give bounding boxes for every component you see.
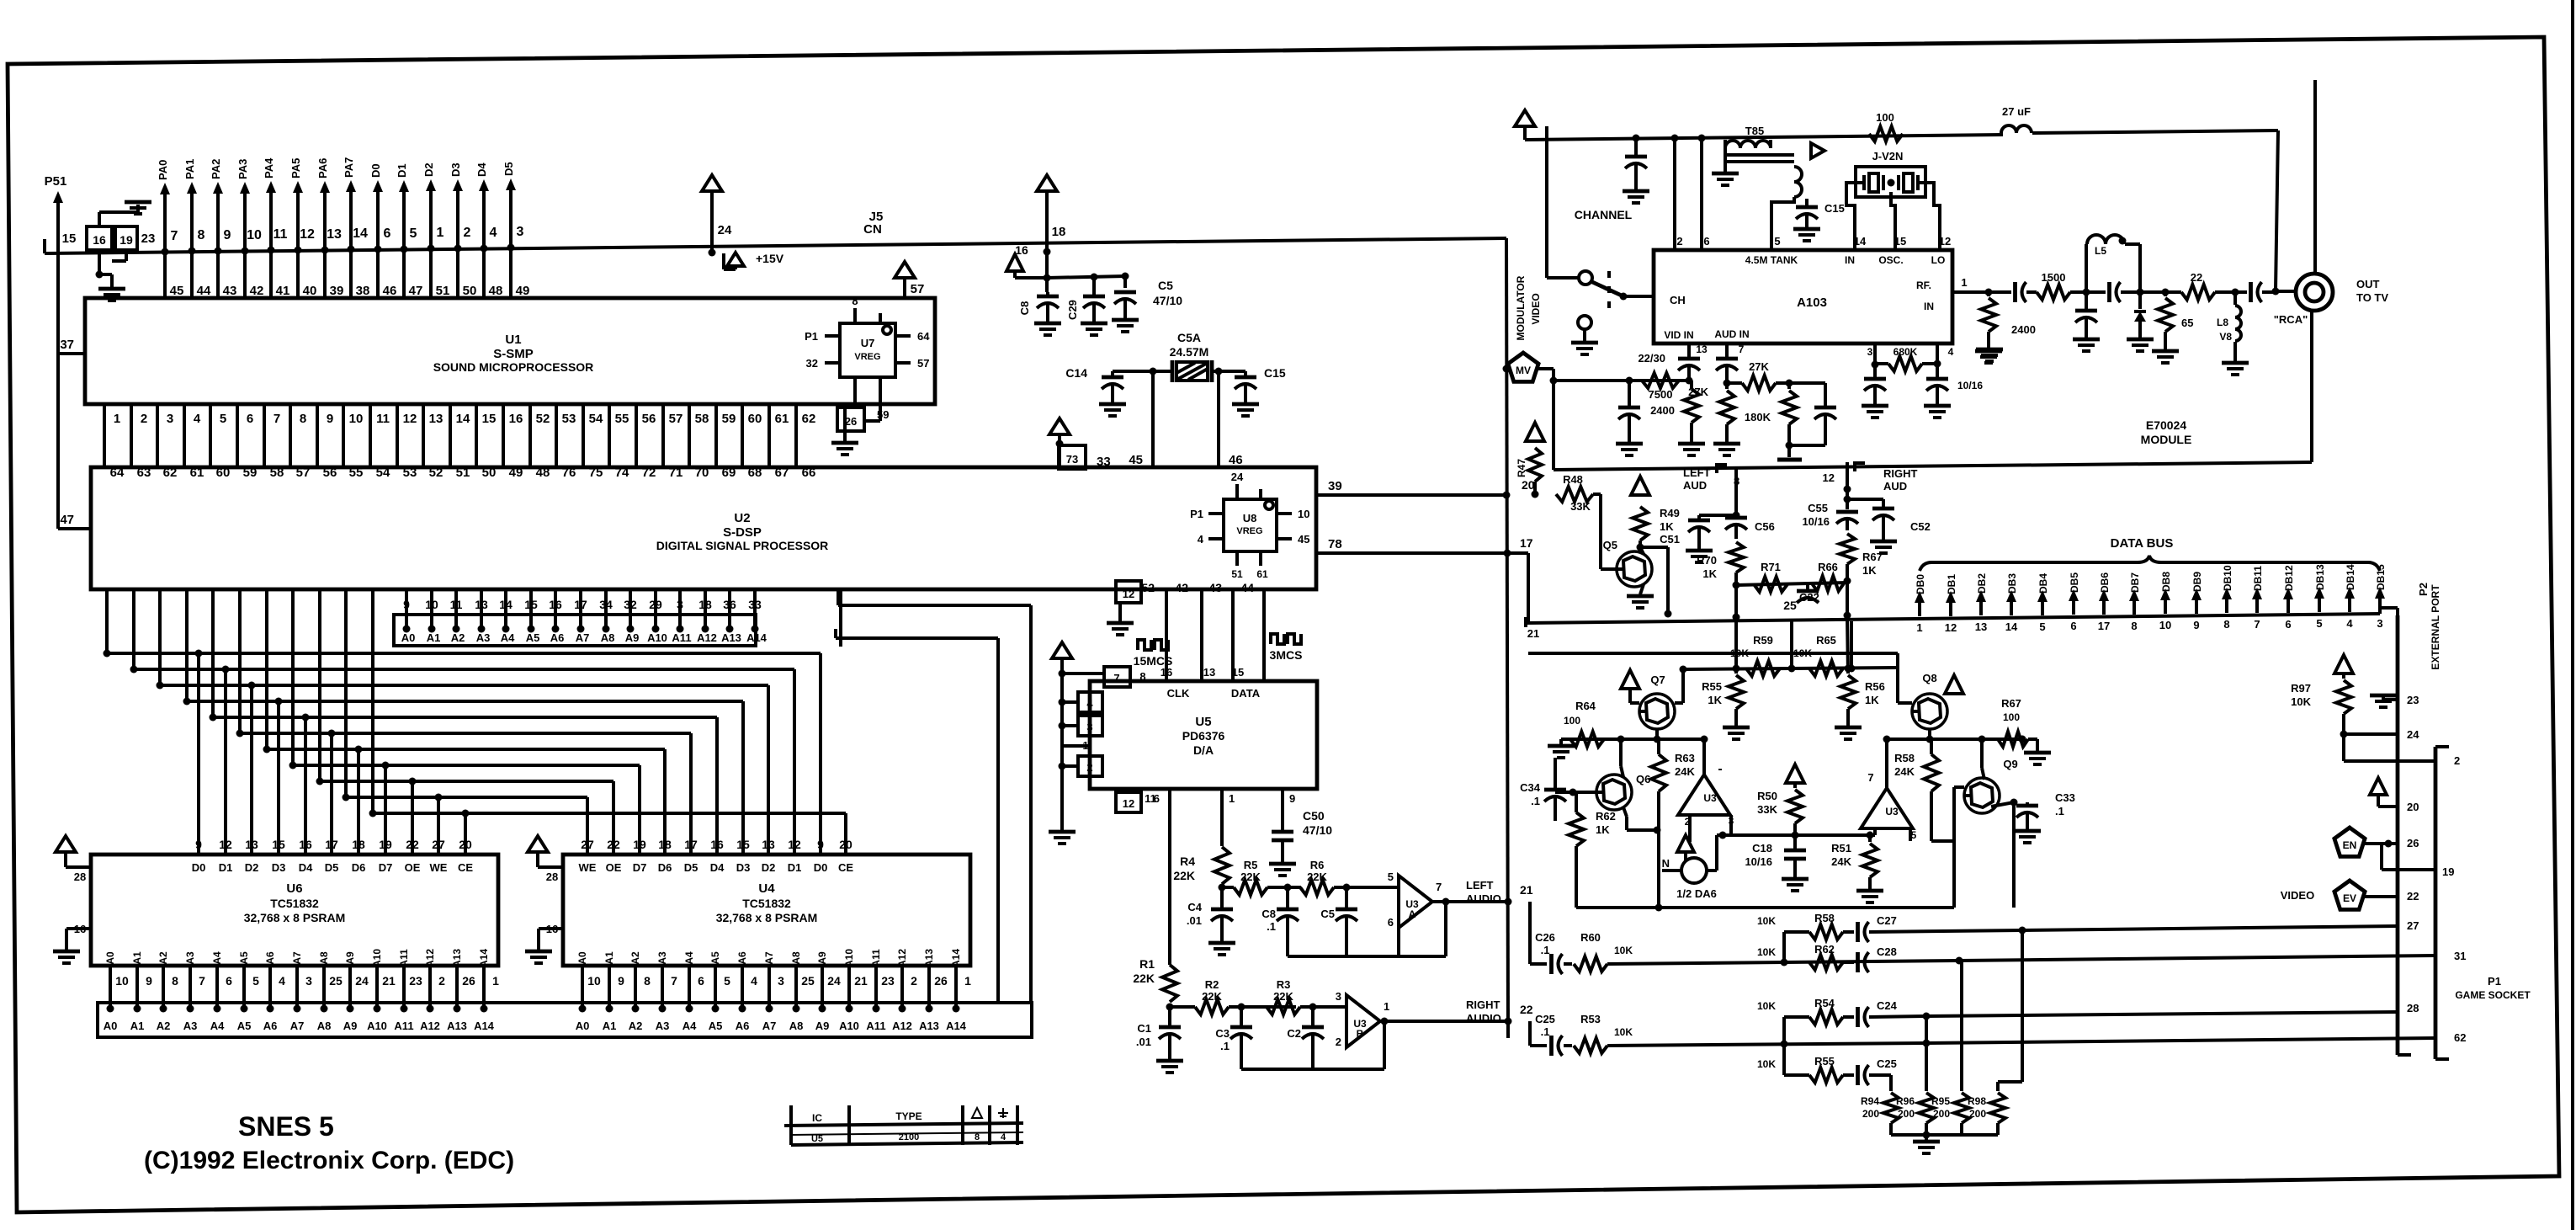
- svg-text:D6: D6: [352, 861, 366, 874]
- svg-text:33: 33: [1097, 455, 1111, 469]
- svg-text:10: 10: [115, 974, 129, 988]
- svg-text:5: 5: [410, 226, 417, 241]
- data bus bit DB8: [2159, 572, 2172, 631]
- wire bus pin 11 arrow / net PA4: [263, 157, 288, 254]
- svg-text:47/10: 47/10: [1303, 823, 1332, 837]
- svg-text:D5: D5: [502, 162, 515, 176]
- svg-text:A9: A9: [815, 1020, 830, 1032]
- P1 pin 62: [2454, 1031, 2466, 1044]
- svg-text:18: 18: [698, 598, 712, 611]
- U4 bottom pin 25 net A8: [790, 951, 815, 1012]
- svg-text:CE: CE: [838, 861, 853, 874]
- svg-text:27 uF: 27 uF: [2002, 105, 2031, 118]
- svg-text:4.5M TANK: 4.5M TANK: [1745, 254, 1798, 266]
- svg-text:A: A: [1409, 908, 1416, 920]
- wire bus pin 6 arrow / net D0: [369, 163, 391, 253]
- U6 bottom pin 6 net A4: [211, 951, 232, 1012]
- svg-text:TC51832: TC51832: [270, 897, 319, 910]
- net J5 CN label: [863, 210, 883, 237]
- svg-text:15: 15: [482, 412, 497, 426]
- capacitor C5b: [1320, 887, 1357, 956]
- wire U1 pin 41: [271, 250, 289, 298]
- wire U3c output: [1701, 736, 1708, 775]
- svg-text:62: 62: [2454, 1031, 2466, 1044]
- resistor R 2400b: [1650, 381, 1705, 455]
- wire bus pin 7 arrow / net PA0: [157, 160, 178, 256]
- svg-text:D4: D4: [475, 162, 488, 177]
- wire bus pin 14 arrow / net PA7: [343, 157, 368, 253]
- ground U6 pin 16: [53, 923, 91, 963]
- capacitor C5 47/10: [1112, 279, 1182, 332]
- svg-text:CN: CN: [863, 222, 882, 237]
- P2 pin 23 ground: [2370, 694, 2419, 707]
- svg-text:C29: C29: [1066, 300, 1079, 320]
- svg-text:D7: D7: [379, 861, 393, 874]
- svg-text:6: 6: [1867, 829, 1873, 841]
- resistor R 680K: [1872, 343, 1941, 371]
- svg-text:17: 17: [684, 838, 698, 851]
- svg-text:10: 10: [247, 228, 262, 242]
- svg-text:C27: C27: [1877, 914, 1897, 927]
- U6 bottom pin 10 net A0: [104, 951, 129, 1012]
- wire Q9 collector: [1982, 739, 1984, 780]
- svg-text:A9: A9: [344, 951, 356, 965]
- svg-text:12: 12: [1945, 621, 1957, 634]
- module E70024 label: [2141, 418, 2192, 446]
- svg-text:A8: A8: [789, 1020, 804, 1032]
- svg-text:1K: 1K: [1660, 520, 1674, 533]
- svg-text:C51: C51: [1660, 533, 1680, 546]
- svg-text:15: 15: [1232, 666, 1244, 679]
- svg-text:DATA BUS: DATA BUS: [2111, 536, 2174, 551]
- svg-text:R60: R60: [1580, 931, 1601, 944]
- capacitor C15x: [1232, 366, 1286, 416]
- wire 180K down: [1787, 445, 1791, 457]
- svg-text:19: 19: [120, 233, 133, 247]
- svg-text:-: -: [1718, 762, 1722, 776]
- wire 18 down: [1045, 253, 1049, 292]
- resistor R67 100: [1998, 697, 2051, 764]
- capacitor mod3: [1862, 365, 1888, 418]
- svg-text:10: 10: [587, 974, 601, 988]
- data bus bit DB13: [2314, 564, 2326, 630]
- node C3 junction: [1229, 1004, 1296, 1011]
- U5 labels: [1161, 666, 1261, 757]
- svg-text:31: 31: [2454, 950, 2466, 962]
- svg-text:A14: A14: [950, 949, 962, 967]
- capacitor C55 10/16: [1802, 502, 1858, 530]
- svg-text:1500: 1500: [2042, 271, 2066, 284]
- svg-text:3: 3: [1336, 990, 1341, 1003]
- svg-text:44: 44: [197, 284, 211, 298]
- svg-text:9: 9: [327, 412, 333, 426]
- data bus bit DB3: [2005, 573, 2018, 633]
- wire Wd to socket: [1926, 1038, 2435, 1043]
- power +V DA6: [1677, 835, 1694, 860]
- U4 bottom pin 5 net A5: [709, 951, 730, 1012]
- svg-text:DB5: DB5: [2069, 572, 2080, 593]
- svg-text:10: 10: [349, 412, 364, 426]
- svg-text:55: 55: [615, 412, 629, 426]
- svg-text:C5A: C5A: [1177, 331, 1201, 344]
- svg-text:6: 6: [226, 974, 232, 988]
- svg-text:1: 1: [964, 974, 971, 988]
- wire data net OE from U2 to RAMs: [316, 589, 614, 855]
- U4 bottom pin 7 net A3: [656, 951, 677, 1012]
- capacitor out1: [1989, 282, 2037, 302]
- svg-text:U2: U2: [734, 511, 750, 525]
- svg-text:A5: A5: [237, 1020, 252, 1032]
- svg-text:Q9: Q9: [2003, 758, 2017, 770]
- svg-text:AUDIO: AUDIO: [1466, 1012, 1501, 1025]
- wire mod pin2 riser: [1671, 135, 1679, 251]
- svg-text:54: 54: [589, 412, 603, 426]
- svg-text:A10: A10: [839, 1020, 859, 1032]
- svg-text:12: 12: [1939, 235, 1951, 248]
- resistor R62b 10K: [1757, 943, 1843, 970]
- svg-text:61: 61: [775, 412, 789, 426]
- wire U1 pin 50: [458, 248, 476, 298]
- svg-text:14: 14: [2005, 620, 2018, 633]
- IC U5 PD6376 box: [1090, 681, 1317, 789]
- wire U1.7 to U2.58: [264, 404, 284, 480]
- svg-text:A12: A12: [892, 1020, 912, 1032]
- svg-text:A13: A13: [923, 949, 935, 967]
- U6 bottom pin 5 net A5: [238, 951, 259, 1012]
- svg-text:20: 20: [2407, 801, 2419, 813]
- scan edge line: [2571, 0, 2574, 1230]
- ground R64 left: [1548, 739, 1575, 758]
- capacitor 180K parallel: [1789, 383, 1836, 445]
- svg-text:10K: 10K: [1757, 946, 1776, 958]
- U2 pin 52 wire: [1141, 581, 1166, 681]
- wire modulator video V1: [1503, 238, 1512, 1038]
- P2 pin 26: [2388, 837, 2419, 849]
- wire RN1 bottom: [96, 250, 127, 287]
- resistor R4 22K: [1173, 847, 1230, 892]
- P2 pin 20 power: [2370, 778, 2419, 813]
- capacitor mv: [1616, 381, 1643, 455]
- P2 pin 22: [2407, 890, 2419, 903]
- svg-text:2: 2: [141, 412, 147, 426]
- wire 7500 rail: [1554, 377, 1689, 385]
- svg-text:19: 19: [2442, 865, 2454, 878]
- capacitor C26 .1: [1535, 931, 1572, 974]
- svg-text:2: 2: [464, 226, 471, 240]
- resistor R53 10K: [1574, 1013, 1633, 1053]
- IC U6 TC51832 box: [91, 855, 498, 966]
- wire Q8 emitter: [1928, 729, 1931, 739]
- resistor R97 10K: [2291, 655, 2353, 738]
- wire U3a output: [1432, 898, 1508, 906]
- svg-text:49: 49: [516, 284, 530, 298]
- svg-text:A11: A11: [866, 1020, 885, 1032]
- svg-text:3MCS: 3MCS: [1270, 648, 1303, 662]
- U6 bottom pin 7 net A3: [184, 951, 205, 1012]
- svg-text:9: 9: [2193, 619, 2199, 631]
- capacitor C27: [1843, 914, 2026, 942]
- svg-text:A4: A4: [211, 951, 223, 965]
- power +V U4 pin 28: [528, 836, 563, 883]
- svg-text:22: 22: [1520, 1003, 1533, 1016]
- svg-text:R67: R67: [2001, 697, 2021, 710]
- IC A103 modulator box: [1654, 250, 1952, 343]
- svg-text:A3: A3: [184, 951, 196, 965]
- svg-text:42: 42: [250, 284, 264, 298]
- net 20 label: [1522, 478, 1535, 492]
- svg-text:C33: C33: [2055, 791, 2075, 804]
- net RIGHT AUD label: [1883, 467, 1918, 493]
- svg-text:10K: 10K: [1757, 1058, 1776, 1070]
- svg-text:15: 15: [272, 838, 285, 851]
- svg-text:OUT: OUT: [2356, 278, 2380, 290]
- legend table: [784, 1105, 1023, 1145]
- svg-text:A4: A4: [210, 1020, 225, 1032]
- svg-text:21: 21: [854, 974, 868, 988]
- U4 bottom pin 4 net A6: [736, 951, 757, 1012]
- data bus brace: [1920, 556, 2380, 571]
- wire U6 pin 27 drop: [432, 794, 445, 855]
- svg-text:LEFT: LEFT: [1466, 879, 1494, 892]
- resistor R55b 10K: [1757, 1044, 1843, 1083]
- svg-text:7: 7: [1739, 343, 1745, 355]
- svg-text:R51: R51: [1831, 842, 1851, 855]
- U2 address pin 33 net A14: [746, 589, 767, 644]
- node C5 junction: [1334, 884, 1399, 892]
- svg-text:57: 57: [911, 282, 925, 296]
- svg-text:22: 22: [607, 838, 620, 851]
- svg-text:PD6376: PD6376: [1182, 729, 1225, 743]
- svg-text:7: 7: [1436, 881, 1442, 893]
- svg-text:RIGHT: RIGHT: [1883, 467, 1918, 480]
- svg-text:EV: EV: [2343, 892, 2356, 904]
- U4 bottom pin 26 net A13: [923, 949, 948, 1013]
- wire address wrap A14: [838, 589, 1031, 1003]
- wire U1.6 to U2.59: [237, 404, 257, 480]
- svg-text:Q8: Q8: [1922, 672, 1936, 684]
- svg-text:58: 58: [695, 412, 709, 426]
- svg-text:9: 9: [195, 838, 202, 851]
- resistor R51 24K: [1831, 832, 1883, 903]
- svg-text:C25: C25: [1535, 1013, 1555, 1025]
- svg-text:A3: A3: [656, 951, 668, 965]
- wire U1.60 to U2.68: [742, 404, 762, 480]
- svg-text:R6: R6: [1310, 859, 1325, 871]
- svg-text:1K: 1K: [1862, 564, 1877, 577]
- svg-text:N: N: [1662, 857, 1670, 870]
- U5 pin 1b wire: [1222, 789, 1235, 846]
- svg-text:17: 17: [574, 598, 587, 611]
- U6 bottom pin 4 net A6: [264, 951, 285, 1012]
- wire rail 776: [1528, 653, 1898, 690]
- svg-text:D5: D5: [684, 861, 698, 874]
- svg-text:28: 28: [2407, 1002, 2419, 1014]
- resistor R54 10K: [1757, 997, 1843, 1025]
- wire 878 rail left: [1570, 736, 1704, 743]
- svg-text:D1: D1: [396, 163, 408, 178]
- svg-text:DB4: DB4: [2037, 573, 2049, 594]
- svg-text:3: 3: [2377, 617, 2382, 630]
- svg-text:A0: A0: [104, 951, 116, 965]
- U4 bottom pin 23 net A11: [870, 949, 895, 1012]
- svg-text:6: 6: [247, 412, 253, 426]
- svg-text:1: 1: [1384, 1000, 1389, 1013]
- svg-text:20: 20: [839, 838, 852, 851]
- resistor R 7500: [1642, 373, 1679, 401]
- svg-text:R55: R55: [1702, 680, 1722, 693]
- U5 pin 4 box: [1062, 692, 1102, 712]
- svg-text:TYPE: TYPE: [895, 1110, 922, 1122]
- svg-text:2: 2: [438, 974, 445, 988]
- wire U1 pin 44: [192, 251, 211, 298]
- svg-text:A0: A0: [104, 1020, 118, 1032]
- svg-text:16: 16: [549, 598, 562, 611]
- power +V U6 pin 28: [56, 836, 91, 883]
- svg-text:A14: A14: [474, 1020, 495, 1032]
- svg-text:C2: C2: [1287, 1027, 1301, 1040]
- svg-text:A7: A7: [291, 951, 303, 965]
- resistor R 180K: [1745, 383, 1797, 450]
- svg-text:A11: A11: [394, 1020, 413, 1032]
- svg-text:10K: 10K: [1793, 647, 1812, 659]
- svg-text:45: 45: [1129, 453, 1143, 467]
- resistor R 2400 out: [1975, 292, 2036, 363]
- svg-text:45: 45: [170, 284, 184, 298]
- svg-text:7: 7: [274, 412, 280, 426]
- svg-text:52: 52: [536, 412, 550, 426]
- svg-text:22: 22: [406, 838, 419, 851]
- svg-text:A0: A0: [576, 951, 588, 965]
- wire Q6 collector: [1621, 739, 1623, 777]
- svg-text:10K: 10K: [2291, 695, 2311, 708]
- U2 address pin 34 net A8: [599, 589, 614, 644]
- wire audio rail 557: [1554, 464, 2154, 470]
- svg-text:SOUND MICROPROCESSOR: SOUND MICROPROCESSOR: [433, 360, 594, 374]
- svg-text:TO TV: TO TV: [2356, 291, 2388, 304]
- svg-text:8: 8: [2131, 620, 2137, 632]
- U2 pin 44 wire: [1240, 581, 1264, 681]
- svg-text:16: 16: [1161, 666, 1172, 679]
- wire U3d output: [1883, 736, 1891, 789]
- svg-text:2: 2: [1086, 761, 1092, 774]
- svg-text:2400: 2400: [2011, 323, 2036, 336]
- wire U2 pin 47: [58, 513, 91, 529]
- svg-text:PA6: PA6: [316, 158, 329, 178]
- resistor R5 22K: [1234, 859, 1267, 895]
- svg-text:4: 4: [1086, 697, 1093, 710]
- wire U1.52 to U2.48: [530, 404, 550, 480]
- svg-text:26: 26: [2407, 837, 2419, 849]
- svg-text:A11: A11: [672, 631, 691, 644]
- svg-text:44: 44: [1240, 581, 1254, 594]
- capacitor C51: [1660, 512, 1739, 563]
- svg-text:3: 3: [778, 974, 784, 988]
- svg-text:A7: A7: [762, 1020, 777, 1032]
- svg-text:R97: R97: [2291, 682, 2311, 695]
- svg-text:10K: 10K: [1757, 915, 1776, 927]
- svg-text:.1: .1: [1220, 1040, 1230, 1052]
- svg-text:38: 38: [356, 284, 370, 298]
- svg-text:7: 7: [1113, 672, 1119, 684]
- svg-text:DB1: DB1: [1946, 574, 1957, 594]
- power +V U1 pin 57: [895, 262, 924, 298]
- svg-text:E70024: E70024: [2146, 418, 2186, 432]
- svg-text:1K: 1K: [1708, 694, 1722, 706]
- resistor R67b 1K: [1840, 534, 1883, 620]
- svg-text:12: 12: [1123, 797, 1134, 810]
- svg-text:LO: LO: [1931, 254, 1946, 266]
- resistor R 1500: [2037, 271, 2090, 300]
- svg-text:DB12: DB12: [2283, 565, 2295, 591]
- svg-text:3: 3: [167, 412, 173, 426]
- ground below RN1: [98, 289, 125, 301]
- svg-text:C34: C34: [1520, 781, 1541, 794]
- svg-text:AUDIO: AUDIO: [1466, 892, 1501, 905]
- svg-text:A3: A3: [656, 1020, 670, 1032]
- wire data net D0 from U2 to RAMs: [104, 589, 821, 855]
- svg-text:A5: A5: [709, 951, 721, 965]
- svg-text:LEFT: LEFT: [1683, 466, 1711, 479]
- wire bus pin 5 arrow / net D1: [396, 163, 417, 253]
- wire U1.14 to U2.51: [450, 404, 470, 480]
- svg-text:15: 15: [1894, 235, 1906, 248]
- module bottom line: [2154, 311, 2312, 464]
- svg-text:P1: P1: [805, 330, 818, 343]
- svg-text:DB13: DB13: [2314, 564, 2326, 590]
- svg-text:A10: A10: [647, 631, 667, 644]
- svg-text:59: 59: [722, 412, 736, 426]
- svg-text:3: 3: [1086, 721, 1092, 733]
- wire data net D5 from U2 to RAMs: [236, 589, 692, 855]
- svg-text:R98: R98: [1968, 1095, 1986, 1107]
- crystal box J-V2N: [1846, 150, 1940, 250]
- svg-text:B: B: [1357, 1028, 1364, 1040]
- svg-text:32: 32: [624, 598, 637, 611]
- svg-text:OSC.: OSC.: [1878, 254, 1903, 266]
- U1 pins 26 59 to ground: [831, 404, 889, 455]
- svg-text:DB0: DB0: [1915, 574, 1926, 594]
- svg-text:V8: V8: [2219, 331, 2232, 343]
- svg-text:33K: 33K: [1757, 803, 1777, 816]
- svg-text:8: 8: [852, 295, 858, 307]
- U5 left pin rail: [1049, 642, 1076, 844]
- wire Q5 collector: [1640, 547, 1672, 618]
- svg-text:R66: R66: [1818, 561, 1838, 573]
- U5 pin 7 box: [1062, 667, 1153, 687]
- svg-text:C15: C15: [1264, 366, 1286, 380]
- svg-text:A6: A6: [736, 1020, 750, 1032]
- svg-text:16: 16: [509, 412, 523, 426]
- svg-text:7: 7: [671, 974, 677, 988]
- svg-text:.1: .1: [1541, 1025, 1550, 1038]
- ground mod right: [1976, 349, 2003, 361]
- P1 pin 19: [2382, 844, 2454, 878]
- transistor Q9: [1964, 758, 2018, 813]
- svg-text:14: 14: [353, 226, 368, 241]
- wire U6 pin 19 drop: [379, 762, 392, 855]
- P2 pin 27: [2407, 919, 2419, 932]
- svg-text:U3: U3: [1885, 806, 1899, 817]
- svg-text:5: 5: [220, 412, 226, 426]
- capacitor mod4: [1924, 364, 1983, 418]
- ground above RN1: [125, 202, 151, 214]
- svg-text:D3: D3: [449, 162, 462, 177]
- P1 pin 2: [2344, 734, 2460, 767]
- U4 bottom pin 10 net A0: [576, 951, 601, 1012]
- svg-text:1K: 1K: [1865, 694, 1879, 706]
- U2 address pin 17 net A7: [574, 589, 589, 644]
- U5 pin 1: [1062, 739, 1090, 752]
